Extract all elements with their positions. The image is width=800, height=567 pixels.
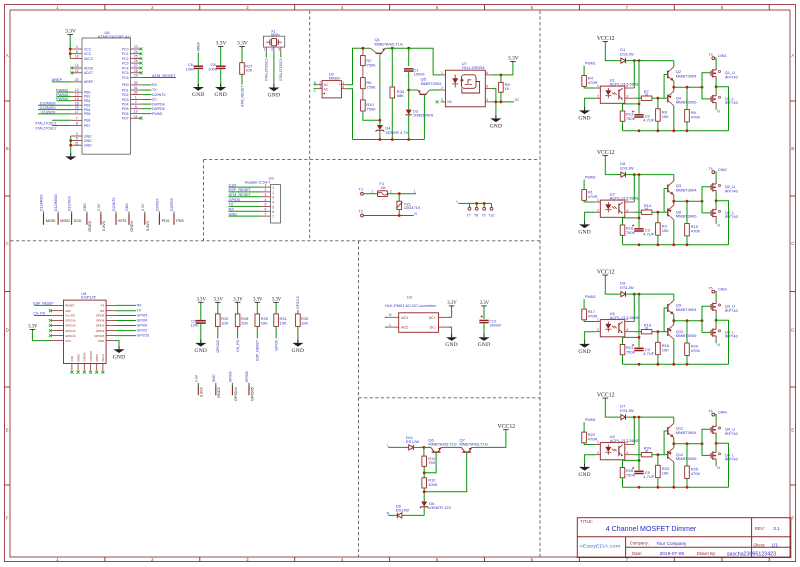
MOSFET Q3_U IRF740 upper [710, 304, 712, 310]
svg-text:2: 2 [597, 451, 599, 455]
wire C top branch channel DIM3 [638, 294, 640, 347]
svg-text:PD6: PD6 [122, 112, 129, 116]
svg-text:3: 3 [441, 98, 443, 102]
U8 right pin GPIO15 [106, 335, 115, 337]
zener diode D4 4.7V [377, 125, 383, 130]
net label GPIO2 at U8 [115, 330, 136, 332]
svg-text:GND: GND [192, 92, 205, 98]
svg-text:PD4: PD4 [122, 102, 129, 106]
svg-text:10K: 10K [662, 470, 669, 475]
svg-text:5: 5 [486, 85, 488, 89]
test pad MISO [57, 212, 59, 214]
test pad GPIO04 [231, 383, 233, 385]
svg-text:D5/PD5: D5/PD5 [170, 198, 174, 211]
svg-text:VCC: VCC [65, 339, 71, 343]
svg-text:GND: GND [478, 342, 491, 348]
svg-text:D4/PD4: D4/PD4 [155, 198, 159, 211]
U8 pin GPIO12 [51, 330, 63, 332]
U8 pin CH_PD [51, 315, 63, 317]
svg-text:ATM_RESET: ATM_RESET [229, 193, 252, 197]
wire U5 pin4 to rail [633, 294, 635, 321]
microcontroller U6 ATMEGA328P-AU [82, 30, 131, 154]
U8 pin GPIO14 [51, 325, 63, 327]
svg-text:18: 18 [75, 55, 79, 59]
svg-text:20: 20 [75, 78, 79, 82]
wire AREF to C6 [197, 53, 199, 66]
svg-text:PC3: PC3 [122, 61, 129, 65]
optocoupler U2 ACPL-217-56AE [600, 192, 639, 218]
wire U4 pin4 to rail [633, 417, 635, 444]
resistor R19 1K [634, 331, 641, 333]
wire 3.3V to VCC pins [69, 36, 71, 59]
svg-text:GPIO16: GPIO16 [65, 319, 76, 323]
test pad 3.3V4 [144, 212, 146, 214]
resistor R21 750K [620, 345, 625, 355]
svg-text:10K: 10K [261, 320, 268, 325]
U8 right pin GPIO2 [106, 330, 115, 332]
wire U7 pin4 to ZC [492, 101, 514, 103]
U6 pin 1 PD3 [131, 99, 142, 101]
svg-text:1K: 1K [644, 327, 649, 331]
svg-text:4: 4 [342, 85, 344, 89]
svg-text:PC6: PC6 [122, 76, 129, 80]
wire Q2 base [664, 75, 668, 99]
ground at U7 [490, 118, 501, 122]
svg-text:4: 4 [626, 198, 628, 202]
svg-text:7: 7 [265, 212, 267, 216]
svg-text:D2/INT0: D2/INT0 [112, 198, 116, 211]
svg-text:NC: NC [447, 100, 452, 104]
U6 pin 3 GND [71, 135, 82, 137]
svg-text:750K: 750K [366, 84, 376, 89]
svg-text:GND: GND [445, 342, 458, 348]
wire VCC12 to D9 [605, 277, 621, 294]
svg-text:3.3V: 3.3V [229, 183, 237, 187]
U6 pin 32 PD2 [131, 94, 142, 96]
optocoupler U7 H11L1SR2M [445, 61, 485, 107]
svg-text:4: 4 [626, 441, 628, 445]
svg-text:VCC: VCC [84, 47, 92, 51]
svg-text:RX: RX [229, 208, 235, 212]
net label GPIO15 at U8 [115, 335, 136, 337]
junction dots bottom rail [379, 138, 382, 141]
wire DC+ to 3.3V [447, 316, 452, 318]
svg-text:750K: 750K [626, 116, 636, 121]
svg-text:VCC: VCC [84, 52, 92, 56]
resistor R8 10K [657, 98, 659, 109]
U6 pin 21 GND [71, 144, 82, 146]
net label L at U3 [385, 326, 388, 328]
wire to gates channel DIM1 [702, 73, 711, 87]
svg-text:29: 29 [134, 74, 138, 78]
junction dot R5 top [500, 74, 503, 77]
svg-text:10: 10 [134, 110, 138, 114]
svg-text:IRF740: IRF740 [725, 334, 739, 339]
resistor R11 75K [423, 447, 425, 456]
svg-text:A: A [791, 53, 794, 58]
svg-text:10K: 10K [662, 114, 669, 119]
wire Q11 emitter junction [673, 438, 675, 448]
terminal T4 [712, 171, 715, 174]
test pad INT0 [115, 212, 117, 214]
svg-text:PD7: PD7 [122, 117, 129, 121]
title block [577, 518, 791, 558]
junction dot Q1 base [379, 119, 382, 122]
svg-text:ACPL-217-56AE: ACPL-217-56AE [610, 196, 640, 201]
wire Q1 base [379, 53, 381, 58]
svg-text:GND: GND [84, 144, 92, 148]
svg-text:3.3V2: 3.3V2 [200, 387, 204, 397]
svg-text:3.3V: 3.3V [141, 203, 145, 211]
svg-text:3.3V: 3.3V [253, 298, 263, 303]
U5 pins [596, 321, 601, 323]
terminal T7 [468, 207, 471, 210]
svg-text:3.3V: 3.3V [237, 41, 248, 47]
wire D2 plus to top rail [346, 48, 370, 84]
U8 pin GPIO16 [51, 320, 63, 322]
U8 pin ADC [51, 310, 63, 312]
svg-text:ES1JW: ES1JW [396, 508, 410, 513]
U6 pin 2 PD4 [131, 103, 142, 105]
svg-text:2: 2 [597, 94, 599, 98]
wire C top branch channel DIM2 [638, 175, 640, 228]
svg-text:GPIO0: GPIO0 [96, 324, 105, 328]
svg-text:1: 1 [264, 48, 266, 52]
wire Q7 base down [424, 452, 467, 492]
resistor R17 470R [582, 309, 587, 320]
svg-text:1: 1 [135, 96, 137, 100]
svg-text:1: 1 [597, 441, 599, 445]
net label XTAL1TOSC1 at X1 [280, 52, 282, 58]
U8 right pin TX [106, 304, 115, 306]
test pad PD5 [173, 212, 175, 214]
U6 pin 14 PB2 [71, 100, 82, 102]
module U8 ESP12F [64, 291, 107, 364]
svg-text:3.3V: 3.3V [28, 325, 38, 330]
svg-text:2A: 2A [381, 185, 386, 190]
svg-text:MISO: MISO [60, 219, 70, 223]
svg-text:GPIO4: GPIO4 [228, 371, 232, 382]
net label TX at U8 [115, 310, 136, 312]
test pad 3.3V2 [197, 383, 199, 385]
ground at U8 [113, 349, 124, 353]
U9 pin 1 3.3V [261, 186, 271, 188]
test pad MOSI [43, 212, 45, 214]
svg-text:GND: GND [125, 203, 129, 211]
svg-text:ESP_RESET: ESP_RESET [229, 188, 252, 192]
svg-text:470K: 470K [691, 471, 701, 476]
svg-text:PWM1: PWM1 [585, 62, 596, 66]
svg-text:750K: 750K [366, 107, 376, 112]
svg-text:SCLK: SCLK [101, 354, 105, 362]
svg-text:26: 26 [134, 59, 138, 63]
svg-text:11: 11 [134, 114, 138, 118]
svg-text:PD3: PD3 [122, 98, 129, 102]
svg-text:-: - [339, 88, 340, 92]
U6 pin 13 PB1 [71, 95, 82, 97]
resistor R7 1K [634, 97, 641, 99]
junction dots pin4 wire [495, 101, 498, 104]
svg-text:470K: 470K [691, 115, 701, 120]
net label RX at U8 [115, 304, 136, 306]
svg-text:Sheet:: Sheet: [753, 542, 765, 547]
U6 pin 31 PD1 [131, 89, 142, 91]
wire T1 to F1 [364, 193, 378, 195]
svg-text:MMBT3904: MMBT3904 [676, 73, 697, 78]
svg-text:5: 5 [272, 205, 274, 209]
svg-text:4: 4 [76, 45, 78, 49]
svg-text:B: B [791, 146, 794, 151]
svg-text:≡EasyEDA.com: ≡EasyEDA.com [580, 543, 622, 548]
wire R10 to Q1 base [363, 111, 380, 120]
wire X1 case to GND [273, 52, 275, 88]
svg-text:TX: TX [101, 304, 105, 308]
wire C top branch channel DIM1 [638, 61, 640, 114]
wire Q7 to VCC12 [472, 431, 506, 447]
svg-text:ES1JW: ES1JW [406, 439, 420, 444]
terminal T6 [712, 413, 715, 416]
svg-text:3.3V: 3.3V [196, 298, 206, 303]
U6 pin 8 PB7 [71, 125, 82, 127]
svg-text:MMBTA42LT1G: MMBTA42LT1G [375, 41, 403, 46]
junction dots T8 T9 [475, 202, 478, 205]
U6 pin 20 AREF [71, 81, 82, 83]
svg-text:1: 1 [265, 183, 267, 187]
U8 pin GPIO13 [51, 335, 63, 337]
svg-text:T5: T5 [709, 286, 713, 290]
resistor R4 470R [582, 76, 587, 87]
wire ground rail channel DIM4 [623, 486, 729, 488]
svg-text:17: 17 [75, 110, 79, 114]
junction dot D11 [423, 446, 426, 449]
U6 pin 29 PC6 [131, 77, 142, 79]
svg-text:7: 7 [76, 116, 78, 120]
X1 pins [265, 47, 267, 52]
svg-text:GPIO15: GPIO15 [296, 296, 300, 309]
svg-text:1/1: 1/1 [772, 542, 779, 547]
svg-text:D: D [6, 328, 9, 333]
svg-text:GPIO10: GPIO10 [89, 351, 93, 362]
capacitor C10 1000uF [483, 308, 485, 320]
svg-text:GND4: GND4 [130, 221, 134, 232]
svg-text:E: E [791, 428, 794, 433]
svg-text:10K: 10K [662, 347, 669, 352]
svg-text:CS0: CS0 [70, 355, 74, 361]
svg-text:GND: GND [98, 339, 104, 343]
wire Q9 emitter junction [673, 315, 675, 325]
capacitor C8 100n [216, 65, 226, 67]
wire DC- to GND [447, 327, 452, 337]
svg-text:ATM_RESET: ATM_RESET [240, 85, 244, 107]
wire Q6 base down [424, 452, 436, 473]
svg-text:100n: 100n [191, 323, 199, 327]
svg-text:2019-07-05: 2019-07-05 [660, 551, 685, 557]
svg-text:GPIO0: GPIO0 [229, 198, 241, 202]
svg-text:sascha23095123423: sascha23095123423 [727, 551, 776, 557]
wire VCC12 to D7 [605, 400, 621, 417]
wire Q10 collector to rail bottom [673, 339, 675, 364]
wire U4 pin2 to ground [585, 455, 596, 465]
svg-text:MOSI: MOSI [46, 219, 56, 223]
wire R6 to R10 [362, 89, 364, 100]
svg-text:GPIO12: GPIO12 [65, 329, 76, 333]
U6 pin 6 VCC [71, 53, 82, 55]
svg-text:GND: GND [578, 229, 591, 235]
svg-text:E: E [6, 428, 9, 433]
test pad 3.3V3 [100, 212, 102, 214]
net label GPIO0 at U8 [115, 325, 136, 327]
svg-text:MMBT3904: MMBT3904 [676, 187, 697, 192]
svg-text:3: 3 [265, 193, 267, 197]
svg-text:D11/MOSI: D11/MOSI [40, 194, 44, 211]
svg-text:F: F [6, 516, 9, 521]
svg-text:30: 30 [134, 81, 138, 85]
junction MOSFET midpoint channel DIM3 [715, 313, 717, 326]
svg-text:REV:: REV: [755, 526, 765, 531]
U6 pin 12 PB0 [71, 91, 82, 93]
svg-text:GND3: GND3 [88, 221, 92, 232]
wire rail channel DIM3 [626, 293, 674, 295]
U9 pin 4 GPIO0 [261, 201, 271, 203]
junction dots top rail [362, 47, 365, 50]
svg-text:1K: 1K [644, 93, 649, 97]
U4 pins [596, 444, 601, 446]
wire driver output bus channel DIM3 [674, 320, 702, 322]
U6 pin 30 PD0 [131, 84, 142, 86]
wire T3 to MOSFET [715, 58, 716, 67]
svg-text:VCC12: VCC12 [497, 424, 515, 430]
U6 pin 27 PC4 [131, 67, 142, 69]
wire U1 pin4 to rail [633, 61, 635, 88]
svg-text:PD2: PD2 [122, 93, 129, 97]
junction dots VCC [69, 48, 72, 51]
svg-text:3.3V: 3.3V [272, 298, 282, 303]
svg-text:6: 6 [76, 50, 78, 54]
junction dot R12 D6 [423, 490, 426, 493]
svg-text:3.3V4: 3.3V4 [146, 221, 150, 231]
junction dot R11 R12 [423, 471, 426, 474]
U6 no-connect marks [70, 67, 73, 70]
svg-text:PB6: PB6 [84, 119, 91, 123]
svg-text:10D471K: 10D471K [404, 205, 421, 210]
svg-text:PC2: PC2 [122, 57, 129, 61]
resistor R33 68K [391, 48, 393, 87]
svg-text:ADC: ADC [65, 309, 71, 313]
svg-text:3.3V3: 3.3V3 [102, 221, 106, 231]
svg-text:GPIO4: GPIO4 [96, 319, 105, 323]
ground channel DIM2 [579, 224, 590, 228]
svg-text:24: 24 [134, 50, 138, 54]
capacitor C6 100n [194, 65, 204, 67]
svg-text:PB3: PB3 [84, 104, 91, 108]
net label D5/PD5 at U6 [141, 108, 151, 110]
U6 pin 28 PC5 [131, 72, 142, 74]
svg-text:GPIO4: GPIO4 [137, 319, 148, 323]
svg-text:1N5819WS: 1N5819WS [413, 113, 434, 118]
svg-text:PWM4: PWM4 [585, 418, 596, 422]
U8 right pin GPIO4 [106, 320, 115, 322]
svg-text:4.7UF: 4.7UF [643, 117, 654, 122]
resistor R16 750K [620, 225, 625, 235]
U8 no-connect marks [49, 309, 52, 312]
svg-text:SCK: SCK [74, 219, 82, 223]
svg-text:GPIO0: GPIO0 [137, 324, 148, 328]
svg-text:D12/MISO: D12/MISO [54, 194, 58, 211]
svg-text:GND: GND [84, 139, 92, 143]
svg-text:3.1: 3.1 [773, 526, 780, 532]
junction dot Q5 emitter node [407, 89, 410, 92]
resistor R2 750K [362, 48, 364, 55]
svg-text:L: L [414, 189, 416, 193]
svg-text:GPIO2: GPIO2 [137, 329, 148, 333]
svg-text:2: 2 [135, 100, 137, 104]
terminal T10 [490, 207, 493, 210]
svg-text:3.3V: 3.3V [216, 41, 227, 47]
dashed box right border [539, 11, 541, 557]
wire U5 pin2 to ground [585, 332, 596, 342]
svg-text:ACPL-217-56AE: ACPL-217-56AE [610, 438, 640, 443]
U8 bottom pads [71, 364, 73, 371]
svg-text:750K: 750K [626, 230, 636, 235]
wire T5 to MOSFET [715, 292, 716, 301]
U9 pin 3 ATM_RESET [261, 196, 271, 198]
wire C6 to GND [197, 69, 199, 87]
svg-text:8: 8 [76, 122, 78, 126]
wire D3 to bottom rail [408, 115, 410, 140]
net label ZC at U6 [141, 99, 151, 101]
ground channel DIM3 [579, 344, 590, 348]
svg-text:14: 14 [75, 97, 79, 101]
svg-text:ESP_RESET: ESP_RESET [256, 339, 260, 360]
svg-text:1K: 1K [644, 450, 649, 454]
svg-text:1000uF: 1000uF [489, 324, 502, 328]
svg-text:D: D [791, 328, 794, 333]
wire D4 to bottom rail [379, 130, 381, 139]
dashed box zero-cross section [309, 11, 311, 241]
svg-text:Your Company: Your Company [656, 541, 687, 546]
svg-text:ADC6: ADC6 [84, 66, 93, 70]
net label L at D2 [314, 88, 318, 90]
wire U2 pin4 to rail [633, 175, 635, 202]
junction MOSFET midpoint channel DIM4 [715, 436, 717, 449]
svg-text:IRF740: IRF740 [725, 457, 739, 462]
MOSFET Q2_U IRF740 upper [710, 185, 712, 191]
svg-text:3: 3 [76, 132, 78, 136]
test pad GPIO05 [248, 383, 250, 385]
U9 pin 6 RX [261, 210, 271, 212]
U8 right pin GND [106, 340, 115, 342]
svg-text:INT0: INT0 [118, 219, 126, 223]
svg-text:GPIO13: GPIO13 [65, 334, 76, 338]
svg-text:10K: 10K [662, 228, 669, 233]
U6 pin 23 PC0 [131, 48, 142, 50]
svg-text:2: 2 [272, 191, 274, 195]
resistor R18 10K [657, 332, 659, 343]
svg-text:GND: GND [229, 212, 238, 216]
resistor R5 1K [500, 75, 502, 83]
svg-text:A: A [6, 53, 9, 58]
no-connect U7 pin3 [436, 100, 439, 103]
svg-text:AVCC: AVCC [84, 57, 94, 61]
svg-text:AC1: AC1 [401, 316, 408, 320]
svg-text:3: 3 [319, 85, 321, 89]
svg-text:+: + [339, 83, 341, 87]
svg-text:ZENER 4.7V: ZENER 4.7V [385, 130, 408, 135]
resistor R9 470K [686, 87, 688, 109]
ground at X1 [268, 88, 279, 92]
svg-text:4: 4 [272, 201, 274, 205]
ground at C6 [193, 87, 204, 91]
